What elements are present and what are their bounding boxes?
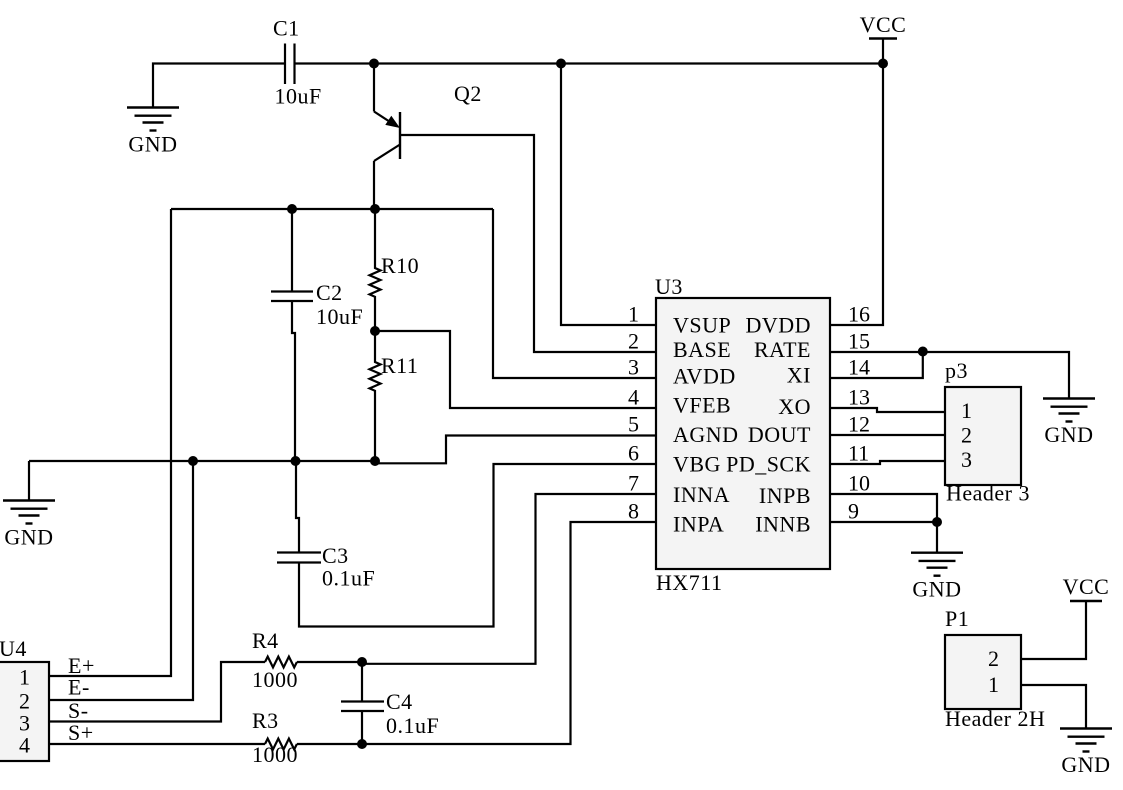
svg-text:8: 8 bbox=[628, 499, 639, 524]
junction bottom rail at E- bbox=[188, 456, 198, 466]
ground GND1 top-left bbox=[127, 108, 179, 131]
svg-text:9: 9 bbox=[848, 499, 859, 524]
svg-text:R4: R4 bbox=[252, 628, 279, 653]
svg-text:S+: S+ bbox=[68, 720, 94, 745]
svg-text:10: 10 bbox=[848, 471, 870, 496]
svg-text:16: 16 bbox=[848, 302, 870, 327]
svg-text:10uF: 10uF bbox=[275, 84, 322, 109]
svg-text:GND: GND bbox=[4, 525, 53, 550]
svg-text:2: 2 bbox=[628, 329, 639, 354]
svg-text:13: 13 bbox=[848, 385, 870, 410]
wire E- vertical to U4 pin2 bbox=[48, 461, 193, 700]
svg-text:Header 3: Header 3 bbox=[946, 481, 1030, 506]
svg-text:XO: XO bbox=[778, 394, 811, 419]
wire S- from U4 pin3 to R4 bbox=[48, 662, 265, 722]
svg-text:VFEB: VFEB bbox=[673, 393, 731, 418]
wire top rail right of C1 to VCC bbox=[295, 62, 883, 64]
wire VSUP vertical to U3 pin1 bbox=[561, 64, 656, 326]
wire P1 pin1 to GND bbox=[1021, 685, 1086, 728]
svg-text:1000: 1000 bbox=[252, 742, 298, 767]
svg-text:Q2: Q2 bbox=[454, 81, 482, 106]
junction top rail at VCC bbox=[878, 59, 888, 69]
svg-text:VCC: VCC bbox=[860, 12, 907, 37]
svg-text:R11: R11 bbox=[381, 353, 418, 378]
svg-text:P1: P1 bbox=[945, 606, 969, 631]
wire E+ vertical to U4 pin1 bbox=[48, 209, 171, 676]
svg-text:3: 3 bbox=[961, 447, 972, 472]
svg-text:INNB: INNB bbox=[755, 512, 811, 537]
wire R3 to U3 pin8 bbox=[297, 522, 656, 744]
svg-text:XI: XI bbox=[787, 363, 811, 388]
wire Q2 base to U3 pin2 bbox=[400, 135, 656, 352]
junction pin9/pin10 bbox=[932, 517, 942, 527]
IC U3 HX711 body bbox=[656, 298, 830, 569]
power VCC top bbox=[882, 39, 884, 64]
junction mid rail at C2 bbox=[287, 204, 297, 214]
svg-text:RATE: RATE bbox=[754, 337, 811, 362]
junction pin15/pin14 bbox=[918, 347, 928, 357]
svg-text:C3: C3 bbox=[322, 543, 349, 568]
svg-text:VCC: VCC bbox=[1063, 574, 1110, 599]
wire U3 pin11 to p3 pin3 bbox=[830, 461, 945, 464]
junction R10/R11 node bbox=[370, 326, 380, 336]
svg-text:DVDD: DVDD bbox=[745, 313, 811, 338]
svg-text:2: 2 bbox=[961, 423, 972, 448]
svg-text:1000: 1000 bbox=[252, 667, 298, 692]
svg-text:1: 1 bbox=[961, 398, 972, 423]
svg-text:15: 15 bbox=[848, 329, 870, 354]
svg-text:0.1uF: 0.1uF bbox=[322, 566, 375, 591]
wire U3 pin12 to p3 pin2 bbox=[830, 434, 945, 436]
svg-text:6: 6 bbox=[628, 441, 639, 466]
svg-text:VSUP: VSUP bbox=[673, 313, 731, 338]
junction bottom rail at C2/C3 bbox=[291, 456, 301, 466]
wire R10/R11 node to U3 pin4 bbox=[375, 331, 656, 408]
junction top rail at VSUP drop bbox=[556, 59, 566, 69]
wire U3 pin10 bbox=[830, 494, 937, 522]
junction R3/C4 bbox=[357, 739, 367, 749]
capacitor C3 bbox=[296, 461, 299, 552]
svg-text:U3: U3 bbox=[655, 274, 683, 299]
svg-text:R3: R3 bbox=[252, 708, 279, 733]
U3 pin names right bbox=[726, 313, 811, 537]
svg-text:C1: C1 bbox=[273, 16, 300, 41]
svg-text:PD_SCK: PD_SCK bbox=[726, 451, 811, 476]
svg-text:10uF: 10uF bbox=[316, 304, 363, 329]
wire U3 pin9 bbox=[830, 522, 937, 553]
wire U3 pin13 to p3 pin1 bbox=[830, 408, 945, 412]
header P1 bbox=[945, 635, 1021, 709]
svg-text:INNA: INNA bbox=[673, 482, 730, 507]
svg-text:DOUT: DOUT bbox=[748, 422, 811, 447]
ground GND5 bottom right bbox=[1060, 729, 1112, 752]
svg-text:R10: R10 bbox=[381, 253, 419, 278]
svg-text:7: 7 bbox=[628, 471, 639, 496]
svg-text:INPB: INPB bbox=[759, 483, 811, 508]
svg-text:GND: GND bbox=[912, 577, 961, 602]
ground GND2 stub bbox=[28, 461, 30, 500]
wire U3 pin15 to GND right bbox=[830, 352, 1069, 398]
svg-text:1: 1 bbox=[19, 665, 30, 690]
wire bottom rail to U3 pin5 bbox=[375, 436, 656, 464]
svg-text:AVDD: AVDD bbox=[673, 363, 736, 388]
wire VCC to P1 pin2 bbox=[1021, 601, 1086, 659]
transistor Q2 bbox=[374, 64, 400, 210]
svg-text:2: 2 bbox=[988, 646, 999, 671]
svg-text:AGND: AGND bbox=[673, 422, 739, 447]
svg-text:C4: C4 bbox=[386, 689, 413, 714]
svg-text:5: 5 bbox=[628, 412, 639, 437]
svg-text:p3: p3 bbox=[945, 358, 968, 383]
svg-text:GND: GND bbox=[1044, 422, 1093, 447]
svg-text:E-: E- bbox=[68, 675, 90, 700]
svg-text:VBG: VBG bbox=[673, 451, 721, 476]
U3 pin numbers left bbox=[628, 302, 639, 524]
svg-text:HX711: HX711 bbox=[656, 570, 722, 595]
capacitor C1 bbox=[285, 44, 295, 85]
svg-text:3: 3 bbox=[628, 355, 639, 380]
svg-text:GND: GND bbox=[1061, 752, 1110, 777]
svg-text:4: 4 bbox=[628, 385, 639, 410]
svg-text:14: 14 bbox=[848, 355, 870, 380]
svg-text:11: 11 bbox=[848, 441, 869, 466]
ground GND2 mid-left bbox=[3, 501, 55, 524]
svg-text:1: 1 bbox=[628, 302, 639, 327]
wire S+ from U4 pin4 to R3 bbox=[48, 743, 265, 745]
capacitor C2 bbox=[291, 209, 293, 291]
wire AVDD mid rail bbox=[171, 208, 493, 210]
wire mid rail to U3 pin3 bbox=[493, 209, 656, 378]
wire C4 node to U3 pin7 bbox=[362, 494, 656, 664]
svg-text:1: 1 bbox=[988, 672, 999, 697]
wire R4 to U3 pin7 bbox=[297, 661, 362, 663]
connector U4 bbox=[0, 662, 49, 761]
junction R4/C4 bbox=[357, 657, 367, 667]
ground GND3 right bbox=[1043, 399, 1095, 422]
wire top rail left (GND to C1) bbox=[153, 64, 284, 108]
header p3 bbox=[945, 387, 1021, 485]
resistor R10 bbox=[370, 209, 381, 331]
resistor R4 bbox=[265, 657, 297, 668]
svg-text:GND: GND bbox=[128, 132, 177, 157]
svg-text:BASE: BASE bbox=[673, 337, 731, 362]
svg-text:INPA: INPA bbox=[673, 512, 724, 537]
svg-text:12: 12 bbox=[848, 412, 870, 437]
svg-text:Header 2H: Header 2H bbox=[945, 706, 1045, 731]
svg-text:4: 4 bbox=[19, 733, 30, 758]
junction bottom rail at R11 bbox=[370, 456, 380, 466]
U3 pin numbers right bbox=[848, 302, 870, 524]
svg-text:0.1uF: 0.1uF bbox=[386, 713, 439, 738]
svg-text:U4: U4 bbox=[0, 636, 27, 661]
ground GND4 below pin9 bbox=[911, 553, 963, 576]
capacitor C4 bbox=[361, 662, 363, 701]
junction top rail at Q2 emitter bbox=[369, 59, 379, 69]
wire AGND bottom rail bbox=[29, 460, 375, 462]
wire VCC vertical to U3 pin16 bbox=[830, 64, 883, 326]
U3 pin names left bbox=[673, 313, 739, 537]
svg-text:C2: C2 bbox=[316, 280, 343, 305]
resistor R3 bbox=[265, 739, 297, 750]
wire U3 pin14 join pin15 bbox=[830, 352, 923, 379]
resistor R11 bbox=[370, 331, 381, 461]
junction mid rail at R10 bbox=[370, 204, 380, 214]
